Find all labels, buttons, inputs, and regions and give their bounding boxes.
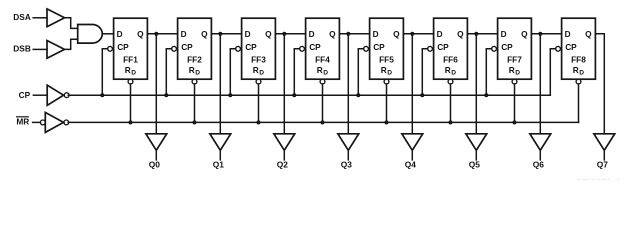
junction on MR bus at FF5 <box>384 120 388 124</box>
wire Q3 buffer output stub <box>347 150 349 160</box>
wire CP riser to FF5 <box>358 49 363 95</box>
bubble on FF5 RD pin <box>384 79 389 84</box>
junction on MR bus at FF1 <box>128 120 132 124</box>
flip-flop FF4 <box>306 18 340 79</box>
svg-text:Q: Q <box>265 29 272 39</box>
svg-text:D: D <box>323 69 328 76</box>
svg-text:Q: Q <box>137 29 144 39</box>
svg-text:Q0: Q0 <box>149 160 161 170</box>
flip-flop FF1 <box>114 18 148 79</box>
wire FF4 RD to MR bus <box>322 84 324 123</box>
svg-text:Q1: Q1 <box>213 160 225 170</box>
junction on CP bus at FF4 <box>292 93 296 97</box>
svg-text:FF1: FF1 <box>123 54 138 64</box>
svg-text:FF2: FF2 <box>187 54 202 64</box>
wire FF2 RD to MR bus <box>194 84 196 123</box>
wire Q1 buffer output stub <box>219 150 221 160</box>
wire Q6 buffer output stub <box>539 150 541 160</box>
svg-text:Q: Q <box>585 29 592 39</box>
svg-text:Q4: Q4 <box>405 160 417 170</box>
svg-text:Q: Q <box>457 29 464 39</box>
svg-text:Q2: Q2 <box>277 160 289 170</box>
svg-text:CP: CP <box>501 42 513 52</box>
svg-text:D: D <box>309 29 315 39</box>
svg-text:R: R <box>445 65 451 75</box>
svg-text:FF7: FF7 <box>507 54 522 64</box>
svg-text:CP: CP <box>117 42 129 52</box>
svg-text:FF6: FF6 <box>443 54 458 64</box>
wire Q0 drop to output buffer <box>155 34 157 134</box>
wire FF1 Q to FF2 D <box>147 33 177 35</box>
svg-text:D: D <box>117 29 123 39</box>
bubble on FF3 CP pin <box>236 46 241 51</box>
svg-text:D: D <box>259 69 264 76</box>
inverter U2 (MR) <box>45 112 63 132</box>
svg-text:CP: CP <box>245 42 257 52</box>
bubble on FF4 CP pin <box>300 46 305 51</box>
svg-text:MR: MR <box>16 117 29 127</box>
wire FF6 RD to MR bus <box>450 84 452 123</box>
svg-text:CP: CP <box>437 42 449 52</box>
svg-text:FF3: FF3 <box>251 54 266 64</box>
junction on Q6 wire <box>538 32 542 36</box>
svg-text:CP: CP <box>181 42 193 52</box>
bubble on FF2 RD pin <box>192 79 197 84</box>
svg-text:CP: CP <box>19 90 31 100</box>
junction on Q5 wire <box>474 32 478 36</box>
wire FF8 Q to Q7 output buffer <box>595 34 604 134</box>
wire FF4 Q to FF5 D <box>339 33 369 35</box>
svg-text:R: R <box>573 65 579 75</box>
junction on MR bus at FF6 <box>448 120 452 124</box>
wire FF6 Q to FF7 D <box>467 33 497 35</box>
wire Q4 buffer output stub <box>411 150 413 160</box>
bubble on FF8 CP pin <box>556 46 561 51</box>
svg-text:FF4: FF4 <box>315 54 330 64</box>
wire CP to inverter <box>33 94 47 96</box>
bubble on FF3 RD pin <box>256 79 261 84</box>
svg-text:D: D <box>131 69 136 76</box>
wire FF7 RD to MR bus <box>514 84 516 123</box>
bubble on MR inverter input <box>40 120 45 125</box>
svg-text:D: D <box>501 29 507 39</box>
bubble on FF5 CP pin <box>364 46 369 51</box>
bubble on FF2 CP pin <box>172 46 177 51</box>
wire DSB buffer to AND input <box>65 39 78 49</box>
svg-text:D: D <box>387 69 392 76</box>
output buffer B1 (Q1) <box>210 134 231 151</box>
junction on CP bus at FF1 <box>100 93 104 97</box>
AND gate G1 <box>78 25 103 44</box>
junction on Q1 wire <box>218 32 222 36</box>
bubble on FF8 RD pin <box>576 79 581 84</box>
bubble on CP inverter output <box>64 93 69 98</box>
junction on CP bus at FF7 <box>484 93 488 97</box>
CP bus (clock net) <box>68 94 550 96</box>
output buffer B7 (Q7) <box>594 134 615 151</box>
svg-text:MNA164–4: MNA164–4 <box>577 177 620 180</box>
bubble on FF6 CP pin <box>428 46 433 51</box>
wire Q1 drop to output buffer <box>219 34 221 134</box>
wire FF3 Q to FF4 D <box>275 33 305 35</box>
wire FF7 Q to FF8 D <box>531 33 561 35</box>
wire Q5 buffer output stub <box>475 150 477 160</box>
svg-text:FF5: FF5 <box>379 54 394 64</box>
flip-flop FF3 <box>242 18 276 79</box>
svg-text:R: R <box>125 65 131 75</box>
wire Q5 drop to output buffer <box>475 34 477 134</box>
output buffer B0 (Q0) <box>146 134 167 151</box>
svg-text:R: R <box>509 65 515 75</box>
svg-text:CP: CP <box>373 42 385 52</box>
svg-text:DSA: DSA <box>13 12 31 22</box>
svg-text:D: D <box>181 29 187 39</box>
junction on MR bus at FF2 <box>192 120 196 124</box>
output buffer B5 (Q5) <box>466 134 487 151</box>
wire Q6 drop to output buffer <box>539 34 541 134</box>
bubble on FF7 RD pin <box>512 79 517 84</box>
junction on CP bus at FF6 <box>420 93 424 97</box>
svg-text:DSB: DSB <box>13 44 31 54</box>
svg-text:D: D <box>195 69 200 76</box>
wire Q4 drop to output buffer <box>411 34 413 134</box>
wire FF8 RD to MR bus <box>578 84 580 123</box>
svg-text:D: D <box>565 29 571 39</box>
buffer A1 (DSA) <box>47 9 65 27</box>
svg-text:Q: Q <box>201 29 208 39</box>
wire Q2 buffer output stub <box>283 150 285 160</box>
bubble on FF1 RD pin <box>128 79 133 84</box>
flip-flop FF2 <box>178 18 212 79</box>
svg-text:D: D <box>451 69 456 76</box>
svg-text:R: R <box>381 65 387 75</box>
wire CP riser to FF1 <box>102 49 107 95</box>
wire CP riser to FF7 <box>486 49 491 95</box>
bubble on MR inverter output <box>64 120 69 125</box>
bubble on FF4 RD pin <box>320 79 325 84</box>
MR bus (reset net) <box>68 121 578 123</box>
junction on CP bus at FF3 <box>228 93 232 97</box>
svg-text:Q: Q <box>329 29 336 39</box>
svg-text:Q7: Q7 <box>597 160 609 170</box>
svg-text:D: D <box>515 69 520 76</box>
wire Q0 buffer output stub <box>155 150 157 160</box>
svg-text:D: D <box>373 29 379 39</box>
output buffer B6 (Q6) <box>530 134 551 151</box>
output buffer B2 (Q2) <box>274 134 295 151</box>
junction on CP bus at FF5 <box>356 93 360 97</box>
bubble on FF6 RD pin <box>448 79 453 84</box>
svg-text:R: R <box>317 65 323 75</box>
svg-text:FF8: FF8 <box>571 54 586 64</box>
wire DSA to buffer <box>33 17 47 19</box>
svg-text:Q: Q <box>393 29 400 39</box>
svg-text:D: D <box>245 29 251 39</box>
overline of MR <box>17 116 29 118</box>
wire FF2 Q to FF3 D <box>211 33 241 35</box>
junction on MR bus at FF4 <box>320 120 324 124</box>
junction on Q2 wire <box>282 32 286 36</box>
wire MR to inverter <box>33 121 41 123</box>
junction on MR bus at FF3 <box>256 120 260 124</box>
output buffer B3 (Q3) <box>338 134 359 151</box>
junction on MR bus at FF7 <box>512 120 516 124</box>
bubble on FF7 CP pin <box>492 46 497 51</box>
flip-flop FF5 <box>370 18 404 79</box>
wire FF3 RD to MR bus <box>258 84 260 123</box>
junction on Q3 wire <box>346 32 350 36</box>
wire CP riser to FF3 <box>230 49 235 95</box>
junction on Q0 wire <box>154 32 158 36</box>
wire CP riser to FF8 <box>550 49 555 95</box>
wire Q2 drop to output buffer <box>283 34 285 134</box>
wire DSA buffer to AND input <box>65 18 78 29</box>
wire FF1 RD to MR bus <box>130 84 132 123</box>
svg-text:Q3: Q3 <box>341 160 353 170</box>
svg-text:Q: Q <box>521 29 528 39</box>
svg-text:D: D <box>437 29 443 39</box>
junction on Q4 wire <box>410 32 414 36</box>
svg-text:CP: CP <box>565 42 577 52</box>
wire FF5 Q to FF6 D <box>403 33 433 35</box>
svg-text:Q6: Q6 <box>533 160 545 170</box>
wire Q7 buffer output stub <box>603 150 605 160</box>
wire DSB to buffer <box>33 48 47 50</box>
flip-flop FF7 <box>498 18 532 79</box>
junction on CP bus at FF2 <box>164 93 168 97</box>
svg-text:CP: CP <box>309 42 321 52</box>
svg-text:Q5: Q5 <box>469 160 481 170</box>
wire FF5 RD to MR bus <box>386 84 388 123</box>
wire Q3 drop to output buffer <box>347 34 349 134</box>
output buffer B4 (Q4) <box>402 134 423 151</box>
svg-text:D: D <box>579 69 584 76</box>
flip-flop FF8 <box>562 18 596 79</box>
svg-text:R: R <box>189 65 195 75</box>
inverter U1 (CP) <box>47 85 63 105</box>
wire CP riser to FF2 <box>166 49 171 95</box>
flip-flop FF6 <box>434 18 468 79</box>
wire CP riser to FF6 <box>422 49 427 95</box>
bubble on FF1 CP pin <box>108 46 113 51</box>
wire AND output to FF1 D <box>102 33 113 35</box>
buffer A2 (DSB) <box>47 41 65 59</box>
wire CP riser to FF4 <box>294 49 299 95</box>
svg-text:R: R <box>253 65 259 75</box>
